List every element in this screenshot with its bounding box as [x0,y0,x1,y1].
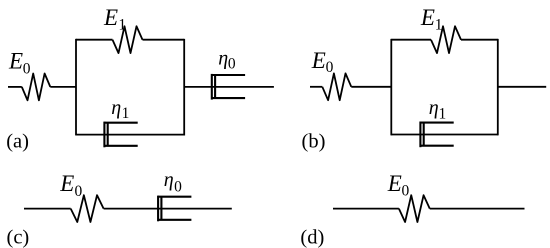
svg-text:1: 1 [118,16,126,33]
dashpot eta1 (a): inner piston line [107,123,109,146]
wire: box (b) top edge left segment [391,39,431,41]
spring E0 (b) [322,73,351,100]
spring E1 (b) [431,26,461,53]
svg-text:η: η [111,97,121,119]
svg-text:η: η [429,97,439,119]
wire: spring E0 to box (a) [50,86,76,88]
svg-text:E: E [311,48,326,73]
svg-text:η: η [164,169,174,191]
dashpot eta0 (c): cylinder top wall [158,196,191,198]
wire: box (a) left vertical [75,39,77,136]
svg-text:(a): (a) [6,130,29,152]
dashpot eta1 (a): cylinder bottom wall [104,145,137,147]
svg-text:0: 0 [23,61,31,78]
wire: box (a) right lead through dashpot eta0 [184,86,274,88]
svg-text:0: 0 [402,182,410,199]
dashpot eta0 (c): piston plate [157,196,159,222]
wire: subfigure (b) right lead [498,86,546,88]
wire: box (b) right vertical [497,39,499,136]
svg-text:0: 0 [326,59,334,76]
spring E0 (c) [71,195,104,222]
wire: box (a) top edge right segment [143,39,185,41]
svg-text:E: E [387,171,402,196]
dashpot eta0 (a): piston plate [211,74,213,100]
spring E0 (a) [22,74,51,101]
dashpot eta1 (b): inner piston line [423,123,425,146]
spring E0 (d) [399,195,430,222]
wire: box (b) left vertical [390,39,392,136]
dashpot eta1 (b): cylinder top wall [420,122,453,124]
svg-text:(d): (d) [300,226,324,248]
wire: box (a) bottom edge [76,134,184,136]
wire: spring E0 to right lead through dashpot eta0 (c) [104,208,232,210]
wire: subfigure (d) right lead [430,208,525,210]
wire: box (a) right vertical [183,39,185,136]
dashpot eta0 (a): cylinder bottom wall [212,97,245,99]
wire: subfigure (b) left lead [310,86,322,88]
svg-text:E: E [420,5,435,30]
svg-text:1: 1 [439,105,447,122]
wire: box (b) bottom edge [391,134,498,136]
svg-text:η: η [218,48,228,70]
dashpot eta1 (a): piston plate [103,122,105,148]
wire: subfigure (d) left lead [333,208,399,210]
wire: subfigure (a) left lead [8,86,22,88]
svg-text:0: 0 [228,55,236,72]
svg-text:1: 1 [435,17,443,34]
wire: spring E0 to box (b) [351,86,391,88]
wire: subfigure (c) left lead [24,208,71,210]
dashpot eta0 (a): cylinder top wall [212,74,245,76]
dashpot eta0 (a): inner piston line [214,75,216,98]
spring E1 (a) [113,26,143,53]
svg-text:E: E [8,49,23,74]
svg-text:0: 0 [75,183,83,200]
dashpot eta1 (b): cylinder bottom wall [420,145,453,147]
svg-text:E: E [59,171,74,196]
wire: box (b) top edge right segment [461,39,498,41]
svg-text:E: E [103,5,118,30]
wire: box (a) top edge left segment [76,39,113,41]
svg-text:(c): (c) [7,226,30,248]
svg-text:1: 1 [122,105,130,122]
dashpot eta1 (b): piston plate [419,122,421,148]
dashpot eta0 (c): inner piston line [160,197,162,220]
svg-text:(b): (b) [302,131,326,153]
dashpot eta1 (a): cylinder top wall [104,122,137,124]
dashpot eta0 (c): cylinder bottom wall [158,219,191,221]
svg-text:0: 0 [174,178,182,195]
